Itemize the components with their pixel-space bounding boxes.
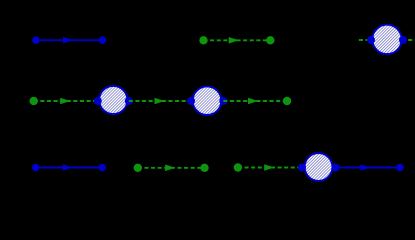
wire: green dashed segment 2 xyxy=(129,100,191,102)
row 3 : bare blue propagator xyxy=(32,164,106,172)
row 1 : bare blue propagator G0 xyxy=(32,36,106,44)
arrow on green segment xyxy=(264,164,274,171)
vertex dot blob left xyxy=(298,164,306,172)
wire: green dashed segment 3 xyxy=(223,100,287,102)
vertex dot blob2 right xyxy=(219,97,227,105)
wire: green dashed leg right xyxy=(402,39,415,41)
vertex dot right xyxy=(99,164,107,172)
arrow on green line xyxy=(229,37,239,44)
arrow on green line xyxy=(165,165,175,172)
wire: green dashed line xyxy=(138,167,205,169)
vertex dot blob right xyxy=(332,164,340,172)
wire: green dashed segment 1 xyxy=(34,100,98,102)
vertex dot left xyxy=(32,36,40,44)
self-energy blob 2 xyxy=(193,86,222,115)
vertex dot end xyxy=(283,97,291,105)
arrow on blue segment xyxy=(361,164,371,171)
self-energy blob (hatched circle) xyxy=(372,25,401,54)
arrow on blue line xyxy=(63,164,73,171)
self-energy blob 1 xyxy=(99,86,127,114)
arrow on segment 1 xyxy=(60,98,70,105)
vertex dot right xyxy=(99,36,107,44)
vertex dot blob1 left xyxy=(94,97,102,105)
wire: blue solid segment xyxy=(336,167,401,169)
vertex dot right xyxy=(266,36,274,44)
arrow on blue line xyxy=(63,37,73,44)
row 2 : dressed propagator chain with two self-energy blobs xyxy=(30,86,292,115)
vertex dot right xyxy=(200,164,208,172)
row 1 : bare green dashed propagator D0 xyxy=(199,36,274,44)
vertex dot right of blob xyxy=(399,36,407,44)
vertex dot left of blob xyxy=(367,36,375,44)
wire: green dashed line xyxy=(204,39,271,41)
row 3 : mixed diagram green dashed - blob - blue solid xyxy=(234,153,404,181)
vertex dot left xyxy=(199,36,207,44)
wire: green dashed leg left xyxy=(359,39,371,41)
self-energy blob xyxy=(305,153,333,181)
vertex dot left xyxy=(32,164,40,172)
vertex dot blue end xyxy=(396,164,404,172)
row 1 : self-energy blob with green dashed legs (cropped at right edge) xyxy=(359,25,415,54)
row 3 : bare green dashed propagator xyxy=(134,164,209,172)
vertex dot green start xyxy=(234,163,242,171)
vertex dot left xyxy=(134,164,142,172)
vertex dot blob1 right xyxy=(125,97,133,105)
wire: blue solid line xyxy=(36,167,103,169)
arrow on segment 2 xyxy=(155,98,165,105)
vertex dot blob2 left xyxy=(187,97,195,105)
vertex dot start xyxy=(30,97,38,105)
wire: green dashed segment xyxy=(238,167,302,169)
wire: blue solid line xyxy=(36,39,103,41)
arrow on segment 3 xyxy=(248,98,258,105)
